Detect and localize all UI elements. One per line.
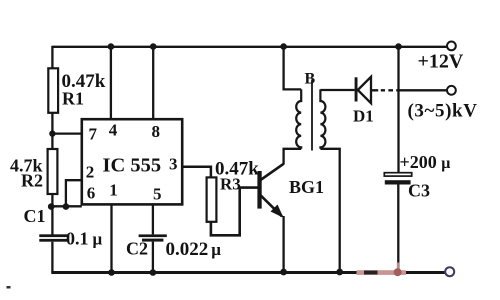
- transistor BG1 emitter stroke with arrow: [260, 195, 284, 218]
- wire R1 bottom to R2 top: [51, 113, 53, 149]
- speck artifact bottom left: [7, 286, 11, 289]
- wire emitter to ground: [282, 216, 284, 273]
- svg-text:(3~5)kV: (3~5)kV: [408, 101, 478, 122]
- junction dot C2 ground: [150, 269, 157, 276]
- junction dot pin1 ground: [108, 269, 115, 276]
- junction dot pin4 on rail: [108, 43, 115, 50]
- svg-text:1: 1: [109, 181, 118, 200]
- svg-text:4: 4: [109, 121, 118, 140]
- reference label R2: [21, 171, 43, 191]
- label +12V: [418, 51, 464, 73]
- wire secondary bottom to ground: [320, 149, 339, 273]
- wire pin 2 stub: [66, 180, 82, 206]
- transistor BG1 collector stroke: [260, 164, 284, 181]
- pin number 1: [109, 181, 118, 200]
- wire pin 4 to supply rail: [110, 47, 112, 120]
- svg-text:B: B: [305, 70, 316, 87]
- svg-text:C1: C1: [24, 206, 46, 226]
- wire left rail vertical: [51, 46, 53, 69]
- value label 4.7k (R2): [10, 156, 43, 176]
- reference label C3: [408, 181, 430, 201]
- terminal ground output: [445, 267, 454, 276]
- resistor R2: [48, 149, 58, 194]
- wire supply rail to transformer primary top: [284, 47, 302, 90]
- wire C1 bottom to ground rail: [51, 242, 53, 273]
- wire pin 8 to supply rail: [152, 47, 154, 120]
- junction dot secondary ground: [336, 269, 343, 276]
- wire supply rail down to C3: [397, 47, 399, 173]
- value label 0.47k (R3): [215, 159, 259, 180]
- transformer B secondary winding: [320, 89, 325, 148]
- value label 0.022u (C2): [166, 239, 222, 260]
- svg-text:8: 8: [151, 122, 160, 141]
- pin number 5: [153, 185, 162, 204]
- transformer label B: [305, 70, 316, 87]
- pin number 4: [109, 121, 118, 140]
- junction dot pin8 on rail: [150, 43, 157, 50]
- pin number 2: [86, 163, 95, 182]
- capacitor C3 electrolytic: [384, 173, 411, 185]
- junction pin7 node dot: [49, 130, 55, 136]
- wire R3 to base of BG1: [211, 188, 258, 236]
- wire C3 bottom to ground: [397, 185, 399, 272]
- terminal +12V: [447, 42, 456, 51]
- svg-text:6: 6: [87, 184, 96, 203]
- pin number 8: [151, 122, 160, 141]
- wire collector to transformer primary bottom: [284, 149, 302, 165]
- svg-text:R2: R2: [21, 171, 43, 191]
- label (3~5)kV: [408, 101, 478, 122]
- capacitor C2: [139, 234, 167, 241]
- transformer core: [311, 80, 313, 151]
- junction dot emitter ground: [280, 269, 287, 276]
- wire pin 1 to ground: [110, 204, 112, 272]
- reference label BG1: [289, 177, 324, 197]
- junction dot primary top on rail: [280, 43, 287, 50]
- resistor R3: [207, 177, 217, 221]
- wire R2 bottom to C1 top: [51, 194, 53, 235]
- wire pin 5 to C2: [152, 204, 154, 234]
- wire diode to HV output terminal: [371, 89, 447, 93]
- svg-text:0.1μ: 0.1μ: [66, 229, 103, 249]
- ic name label IC 555: [103, 155, 162, 177]
- transformer B primary winding: [296, 89, 301, 148]
- reference label R1: [62, 89, 84, 109]
- wire pin 6 stub: [51, 205, 82, 207]
- svg-text:7: 7: [88, 125, 97, 144]
- wire pin 3 to R3: [182, 167, 211, 178]
- reference label D1: [353, 107, 374, 126]
- svg-text:C2: C2: [126, 239, 148, 259]
- svg-text:D1: D1: [353, 107, 374, 126]
- wire secondary top to diode: [320, 89, 354, 91]
- svg-text:IC 555: IC 555: [103, 155, 162, 177]
- reference label R3: [220, 175, 241, 194]
- svg-text:2: 2: [86, 163, 95, 182]
- value label 0.1u (C1): [66, 229, 103, 249]
- svg-text:BG1: BG1: [289, 177, 324, 197]
- svg-text:R3: R3: [220, 175, 241, 194]
- pin number 7: [88, 125, 97, 144]
- watermark pink overlay on ground rail: [357, 263, 407, 277]
- terminal HV output: [447, 86, 456, 95]
- node +12V top supply rail: [52, 46, 446, 48]
- value label +200u (C3): [400, 152, 451, 172]
- transistor Q1 BG1 base bar: [257, 171, 261, 209]
- junction node dot on left rail at pin6 wire: [48, 203, 55, 210]
- svg-text:3: 3: [169, 154, 178, 173]
- svg-text:5: 5: [153, 185, 162, 204]
- resistor R1: [48, 68, 58, 113]
- capacitor C1: [39, 234, 68, 241]
- svg-text:0.022μ: 0.022μ: [166, 239, 222, 260]
- svg-text:+200 μ: +200 μ: [400, 152, 451, 172]
- pin number 6: [87, 184, 96, 203]
- junction node dot pin2/pin6 joint: [63, 203, 70, 210]
- op-amp U1 IC 555 timer box: [82, 119, 182, 204]
- wire C2 bottom to ground: [152, 242, 154, 273]
- value label 0.47k (R1): [62, 71, 106, 92]
- reference label C1: [24, 206, 46, 226]
- wire pin 7 stub: [52, 132, 82, 134]
- svg-text:C3: C3: [408, 181, 430, 201]
- node ground bottom rail: [51, 271, 446, 274]
- reference label C2: [126, 239, 148, 259]
- diode D1: [355, 77, 371, 103]
- svg-text:+12V: +12V: [418, 51, 464, 73]
- pin number 3: [169, 154, 178, 173]
- junction dot C3 branch on rail: [395, 43, 402, 50]
- svg-text:R1: R1: [62, 89, 84, 109]
